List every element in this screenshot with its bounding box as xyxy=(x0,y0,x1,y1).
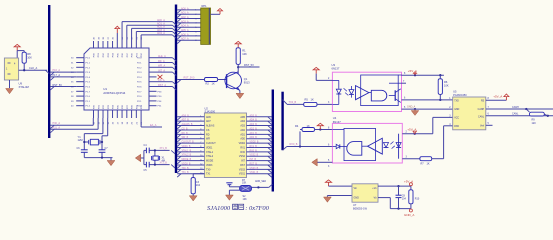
svg-text:INT_B: INT_B xyxy=(250,159,257,161)
svg-text:VSS2: VSS2 xyxy=(239,155,246,158)
svg-text:1K: 1K xyxy=(311,98,314,102)
svg-text:INT_A: INT_A xyxy=(158,69,165,72)
svg-text:RP1: RP1 xyxy=(202,4,208,8)
svg-text:+5V_A: +5V_A xyxy=(493,94,502,98)
svg-text:P1.5: P1.5 xyxy=(86,82,91,84)
svg-text:AD3_A: AD3_A xyxy=(181,20,189,23)
svg-text:VDD1_B: VDD1_B xyxy=(182,146,191,148)
svg-text:10K: 10K xyxy=(242,52,247,56)
svg-text:VDD2_B: VDD2_B xyxy=(250,142,259,144)
svg-text:P1.1: P1.1 xyxy=(86,63,91,65)
svg-text:XTAL4M: XTAL4M xyxy=(19,85,30,89)
svg-text:CLKOUT: CLKOUT xyxy=(206,142,216,145)
svg-text:VDD2: VDD2 xyxy=(239,142,246,145)
svg-text:P2.2: P2.2 xyxy=(137,67,142,69)
svg-text:RX1: RX1 xyxy=(240,146,245,149)
svg-text:AVR/51/LQFP44: AVR/51/LQFP44 xyxy=(103,91,125,95)
svg-text:+5V_A: +5V_A xyxy=(404,180,413,184)
svg-text:VDD3: VDD3 xyxy=(206,164,213,167)
svg-text:RX1_B: RX1_B xyxy=(250,146,258,148)
svg-text:P2.1: P2.1 xyxy=(137,101,142,103)
svg-text:GND: GND xyxy=(354,196,360,199)
svg-text:AD7_B: AD7_B xyxy=(182,119,190,122)
svg-text:AD2: AD2 xyxy=(240,129,245,132)
svg-text:ALE/AS: ALE/AS xyxy=(206,125,215,128)
svg-text:P2.1: P2.1 xyxy=(137,63,142,65)
svg-text:WR_A: WR_A xyxy=(158,65,166,68)
svg-text:RD_A: RD_A xyxy=(158,60,165,63)
svg-text:Vref: Vref xyxy=(480,124,484,127)
svg-text:R5: R5 xyxy=(305,98,309,102)
svg-text:AD0: AD0 xyxy=(240,138,245,141)
svg-text:RST_B: RST_B xyxy=(250,163,258,165)
svg-text:P16_A: P16_A xyxy=(53,69,61,72)
svg-text:AD2_A: AD2_A xyxy=(181,16,189,19)
svg-text:RXD: RXD xyxy=(454,126,459,128)
svg-text:RST_A: RST_A xyxy=(158,84,166,87)
svg-text:TX0_B: TX0_B xyxy=(182,168,189,170)
svg-text:AD4_B: AD4_B xyxy=(250,119,258,122)
svg-text:AD4_A: AD4_A xyxy=(157,32,165,35)
svg-text:ADR_SE0: ADR_SE0 xyxy=(255,180,267,183)
svg-text:WR: WR xyxy=(206,138,210,141)
svg-text:4M: 4M xyxy=(162,160,165,163)
svg-text:P1.0: P1.0 xyxy=(86,96,91,98)
svg-text:+5V_A: +5V_A xyxy=(408,69,417,73)
svg-text:VDD1: VDD1 xyxy=(206,146,213,149)
svg-text:XTAL2_B: XTAL2_B xyxy=(182,154,192,157)
svg-text:U7: U7 xyxy=(353,203,357,207)
svg-text:B0505S-1W: B0505S-1W xyxy=(353,207,368,211)
svg-text:PCA82C250: PCA82C250 xyxy=(453,94,467,97)
svg-text:XT1_B: XT1_B xyxy=(160,147,168,150)
svg-text:AD6: AD6 xyxy=(206,116,211,119)
svg-text:P2.5: P2.5 xyxy=(137,82,142,84)
svg-text:P1.1: P1.1 xyxy=(86,101,91,103)
svg-text:RST_5V0: RST_5V0 xyxy=(184,77,195,80)
svg-text:104: 104 xyxy=(196,184,201,187)
svg-text:GND: GND xyxy=(454,109,459,111)
svg-text:MODE: MODE xyxy=(206,160,214,163)
svg-text:AD5_B: AD5_B xyxy=(250,114,258,117)
svg-text:U3: U3 xyxy=(332,63,336,67)
svg-text:104: 104 xyxy=(402,198,407,201)
svg-text:AD5_A: AD5_A xyxy=(181,29,189,32)
svg-text:10K: 10K xyxy=(27,55,32,59)
svg-text:AD6_A: AD6_A xyxy=(181,33,189,36)
svg-text:AD0_B: AD0_B xyxy=(250,136,258,139)
svg-text:CANH: CANH xyxy=(512,106,519,109)
svg-text:TX0_B: TX0_B xyxy=(289,101,297,104)
svg-text:P1.2: P1.2 xyxy=(86,106,91,108)
svg-text:RX0_B: RX0_B xyxy=(290,143,298,146)
svg-text:ALE/AS_B: ALE/AS_B xyxy=(182,123,193,126)
svg-text:CANL: CANL xyxy=(512,113,519,116)
svg-text:CLKOUT_B: CLKOUT_B xyxy=(182,142,195,144)
svg-text:RX0: RX0 xyxy=(240,151,245,154)
svg-text:AD2_B: AD2_B xyxy=(250,127,258,130)
svg-text:TX1: TX1 xyxy=(206,173,211,176)
svg-text:RST_5V: RST_5V xyxy=(244,63,254,67)
svg-text:R6: R6 xyxy=(444,80,448,84)
svg-text:AD1_A: AD1_A xyxy=(181,12,189,15)
svg-text:R4: R4 xyxy=(295,124,299,128)
svg-text:VDD3_B: VDD3_B xyxy=(182,163,191,165)
svg-text:AD3: AD3 xyxy=(240,125,245,128)
svg-text:AD4_A: AD4_A xyxy=(181,25,189,28)
svg-text:P2.0: P2.0 xyxy=(137,96,142,98)
svg-text:P2.4: P2.4 xyxy=(137,77,142,79)
svg-text:P1.2: P1.2 xyxy=(86,67,91,69)
svg-text:R10: R10 xyxy=(415,198,420,201)
svg-text:AD7_A: AD7_A xyxy=(181,38,189,41)
svg-text:RD_B: RD_B xyxy=(182,133,189,135)
svg-text:10K: 10K xyxy=(243,198,248,201)
svg-text:P1.7: P1.7 xyxy=(86,91,91,93)
svg-text:Q1: Q1 xyxy=(244,77,248,81)
svg-text:+Vo: +Vo xyxy=(372,187,377,190)
svg-text:U4: U4 xyxy=(333,116,337,120)
svg-text:AD4: AD4 xyxy=(240,120,245,123)
svg-text:P30_A: P30_A xyxy=(53,122,61,125)
svg-text:AD0_A: AD0_A xyxy=(181,7,189,10)
svg-text:ALE_A: ALE_A xyxy=(158,55,166,58)
svg-text:VSS2_B: VSS2_B xyxy=(250,155,259,157)
svg-text:VSS1_B: VSS1_B xyxy=(250,172,259,174)
svg-text:P2.0: P2.0 xyxy=(137,58,142,60)
svg-text:CS: CS xyxy=(206,129,210,132)
svg-text:AD6_B: AD6_B xyxy=(182,114,190,117)
svg-text:CS_A: CS_A xyxy=(158,79,165,82)
svg-text:GND_A: GND_A xyxy=(404,213,414,217)
svg-text:P1.0: P1.0 xyxy=(86,58,91,60)
svg-text:6N137: 6N137 xyxy=(333,120,341,124)
svg-text:AD7: AD7 xyxy=(206,120,211,123)
svg-text:P2.3: P2.3 xyxy=(137,72,142,74)
svg-text:9013: 9013 xyxy=(244,81,250,85)
svg-text:TX0: TX0 xyxy=(206,168,211,171)
svg-text:10K: 10K xyxy=(242,182,247,185)
svg-text:10K: 10K xyxy=(444,83,449,87)
svg-text:12M: 12M xyxy=(78,138,83,142)
svg-text:XTAL2: XTAL2 xyxy=(206,155,214,158)
svg-text:CS_B: CS_B xyxy=(182,128,188,130)
svg-text:INT: INT xyxy=(241,160,245,163)
svg-text:AD0_A: AD0_A xyxy=(157,19,165,22)
svg-text:RST_5V: RST_5V xyxy=(53,84,63,87)
svg-text:P31_A: P31_A xyxy=(53,126,61,129)
svg-text:WR_B: WR_B xyxy=(182,137,189,139)
svg-text:VSS3_B: VSS3_B xyxy=(250,168,259,170)
svg-text:R2: R2 xyxy=(206,82,210,86)
svg-text:P2.6: P2.6 xyxy=(137,87,142,89)
svg-text:P1.4: P1.4 xyxy=(86,77,91,79)
svg-text:RX0_B: RX0_B xyxy=(250,150,258,152)
svg-text:AD1: AD1 xyxy=(240,133,245,136)
svg-text:AD5: AD5 xyxy=(240,116,245,119)
svg-text:VCC: VCC xyxy=(454,117,459,119)
svg-text:SJA1000: SJA1000 xyxy=(207,205,231,212)
svg-text:RST: RST xyxy=(240,164,245,167)
svg-text:+5V_A: +5V_A xyxy=(407,128,416,132)
svg-text:SJA1000: SJA1000 xyxy=(205,109,216,113)
svg-text:1K: 1K xyxy=(212,82,215,86)
svg-text:1K: 1K xyxy=(307,124,310,128)
svg-text:: 0x7F00: : 0x7F00 xyxy=(245,205,269,212)
svg-text:AD1_B: AD1_B xyxy=(250,132,258,135)
svg-text:P1.6: P1.6 xyxy=(86,87,91,89)
svg-text:RS: RS xyxy=(481,101,485,103)
svg-text:CANL: CANL xyxy=(478,115,485,118)
svg-text:GND_A: GND_A xyxy=(407,106,416,109)
svg-text:VSS1: VSS1 xyxy=(239,173,246,176)
svg-text:RD: RD xyxy=(206,133,210,136)
svg-text:6N137: 6N137 xyxy=(332,67,340,71)
svg-text:P1.3: P1.3 xyxy=(86,72,91,74)
svg-text:120: 120 xyxy=(532,122,537,125)
svg-text:CANH: CANH xyxy=(478,108,485,111)
svg-text:MODE_B: MODE_B xyxy=(182,159,192,161)
svg-text:P2.7: P2.7 xyxy=(137,91,142,93)
svg-text:XTAL1: XTAL1 xyxy=(206,151,214,154)
svg-text:VSS3: VSS3 xyxy=(239,168,246,171)
svg-text:TXD: TXD xyxy=(454,101,459,103)
svg-text:AD3_B: AD3_B xyxy=(250,123,258,126)
svg-text:CLK_A: CLK_A xyxy=(29,66,37,70)
svg-text:P17_A: P17_A xyxy=(53,74,61,77)
svg-text:TX1_B: TX1_B xyxy=(182,172,189,174)
svg-text:EA_A: EA_A xyxy=(150,124,157,127)
svg-text:XTAL1_B: XTAL1_B xyxy=(182,149,192,152)
svg-text:1K: 1K xyxy=(427,162,430,165)
